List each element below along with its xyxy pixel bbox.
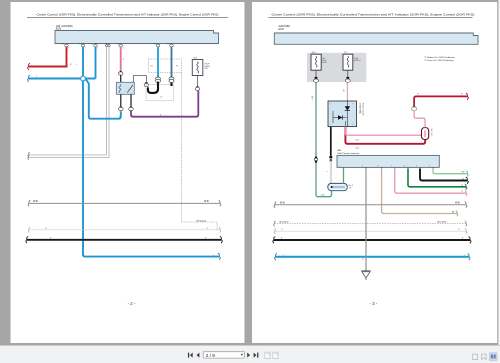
svg-text:W-B: W-B <box>33 200 38 203</box>
svg-text:SW: SW <box>204 68 207 70</box>
svg-text:4: 4 <box>429 165 430 167</box>
svg-text:L: L <box>327 171 329 172</box>
svg-text:8: 8 <box>378 165 379 167</box>
svg-text:1: 1 <box>97 48 98 50</box>
svg-text:24: 24 <box>79 43 81 45</box>
svg-text:*1: Before Oct. 2020 Productio: *1: Before Oct. 2020 Production <box>424 56 456 59</box>
svg-text:L: L <box>119 117 120 119</box>
svg-text:6: 6 <box>404 165 405 167</box>
svg-text:41: 41 <box>458 229 460 231</box>
svg-text:L: L <box>36 76 37 78</box>
svg-text:(Shielded): (Shielded) <box>279 222 289 224</box>
svg-text:4: 4 <box>123 48 124 50</box>
svg-text:35: 35 <box>62 43 64 45</box>
svg-text:ECM: ECM <box>279 29 284 31</box>
svg-text:AG1: AG1 <box>194 57 198 60</box>
svg-text:23: 23 <box>91 43 93 45</box>
svg-text:(*2): (*2) <box>356 148 360 150</box>
svg-text:7: 7 <box>330 124 331 126</box>
svg-text:2: 2 <box>330 104 331 106</box>
svg-text:(*1): (*1) <box>356 139 360 141</box>
svg-text:34: 34 <box>154 43 156 45</box>
svg-text:L: L <box>76 64 77 66</box>
svg-text:W-B: W-B <box>455 202 460 205</box>
svg-text:I15: I15 <box>344 52 347 54</box>
svg-text:B/UP LP: B/UP LP <box>354 60 362 62</box>
svg-text:4: 4 <box>353 124 354 126</box>
svg-text:7: 7 <box>391 165 392 167</box>
svg-text:2: 2 <box>85 48 86 50</box>
svg-text:(A/T): (A/T) <box>312 51 317 54</box>
svg-text:No.1 J/C: No.1 J/C <box>430 129 432 137</box>
svg-text:A/ALP(NB): A/ALP(NB) <box>279 25 290 28</box>
svg-text:2 / 9: 2 / 9 <box>206 353 216 358</box>
svg-text:L: L <box>464 255 465 257</box>
svg-text:L-AB: L-AB <box>321 193 326 196</box>
svg-text:33: 33 <box>167 43 169 45</box>
svg-text:1: 1 <box>340 165 341 167</box>
svg-text:Cruise Control (2GR FKS), Elec: Cruise Control (2GR FKS), Electronically… <box>37 13 219 17</box>
svg-text:(Shielded): (Shielded) <box>196 220 206 222</box>
svg-text:2: 2 <box>362 165 363 167</box>
svg-text:18: 18 <box>116 43 118 45</box>
svg-text:L-AB: L-AB <box>311 95 314 100</box>
svg-text:- 2 -: - 2 - <box>128 301 136 306</box>
svg-text:3: 3 <box>68 48 69 50</box>
svg-text:S1: S1 <box>176 66 178 68</box>
svg-text:Position Switch: Position Switch <box>361 103 364 116</box>
svg-text:L: L <box>213 254 214 256</box>
svg-text:W-B: W-B <box>204 200 209 203</box>
svg-text:L: L <box>283 255 284 257</box>
svg-text:41: 41 <box>281 229 283 231</box>
svg-text:W-B: W-B <box>280 202 285 205</box>
svg-text:Shift Position Indicator: Shift Position Indicator <box>337 152 359 155</box>
svg-text:Cruise Control (2GR FKS), Elec: Cruise Control (2GR FKS), Electronically… <box>272 13 475 17</box>
svg-text:(Shielded): (Shielded) <box>437 222 447 224</box>
svg-text:14: 14 <box>45 228 47 230</box>
svg-text:(Shift) P(N)D: (Shift) P(N)D <box>358 103 361 114</box>
svg-text:8: 8 <box>353 104 354 106</box>
svg-text:5: 5 <box>416 165 417 167</box>
svg-text:A38 A/ALP(NB): A38 A/ALP(NB) <box>56 25 73 28</box>
svg-text:*2: From Oct. 2020 Production: *2: From Oct. 2020 Production <box>424 59 454 62</box>
svg-text:S2: S2 <box>151 66 153 68</box>
svg-text:- 3 -: - 3 - <box>370 301 378 306</box>
svg-text:14: 14 <box>206 228 208 230</box>
